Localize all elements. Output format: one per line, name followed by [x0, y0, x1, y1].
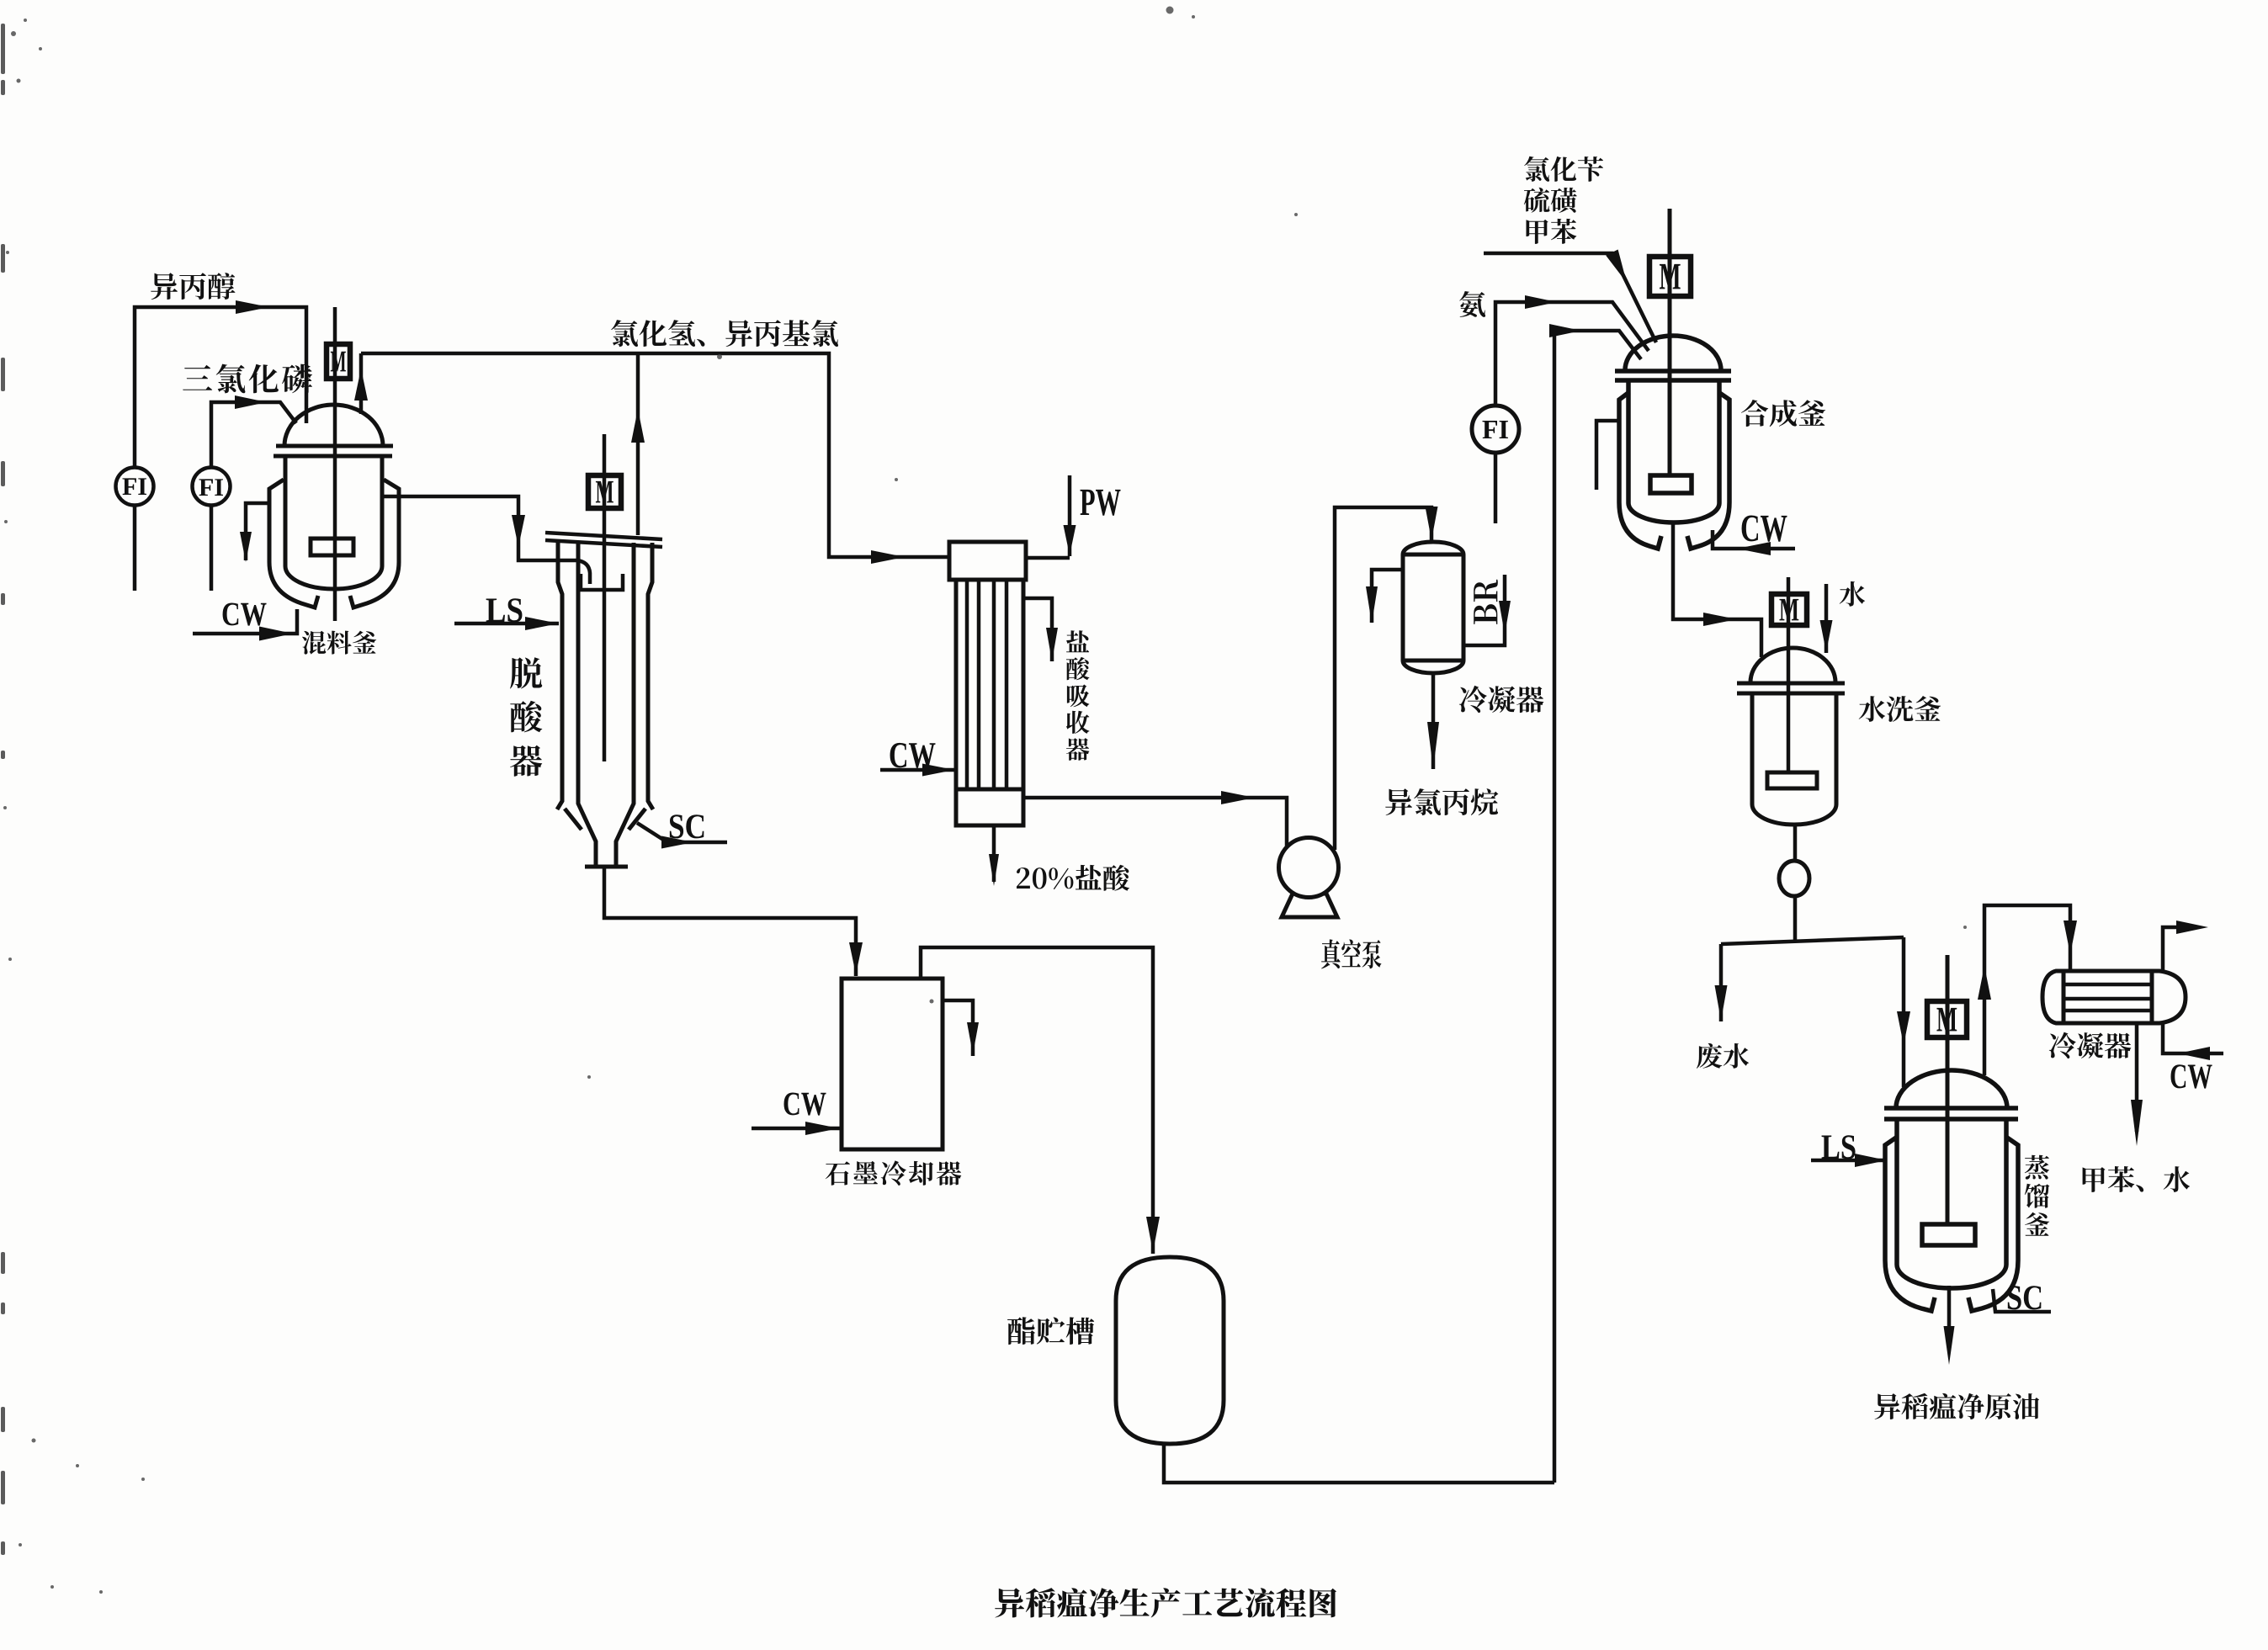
wire: ester recycle riser from storage tank to synthesis kettle — [1554, 331, 1641, 1483]
synthesis kettle paddle — [1650, 475, 1692, 493]
instrument FI1 (flow indicator) — [116, 468, 154, 506]
agitator shaft of mixing kettle — [333, 307, 337, 621]
deacidifier bottom flange — [585, 865, 628, 869]
wire: outlet below valve — [1793, 896, 1798, 941]
wire: mixing kettle outlet to deacidifier — [382, 496, 577, 560]
agitator shaft of synthesis kettle — [1668, 209, 1672, 475]
label 异氯丙烷 (isopropyl chloride product) — [1385, 788, 1498, 815]
synthesis kettle jacket left — [1619, 392, 1661, 549]
wire: phosphorus trichloride feed line with FI2 — [211, 402, 296, 468]
label 废水 (waste water) — [1697, 1043, 1749, 1069]
label CW (mixing kettle inlet) — [223, 603, 267, 626]
label SC — [670, 814, 704, 838]
wire: absorber side outlet to vacuum pump — [1023, 798, 1287, 852]
wash kettle body — [1752, 693, 1836, 825]
label 氨 (ammonia) — [1459, 291, 1485, 317]
synthesis kettle body — [1628, 380, 1719, 523]
deacidifier collar and column outer shell — [557, 543, 562, 809]
wire: ester tank bottom outlet to recycle riser — [1164, 1444, 1554, 1483]
wire: organic branch to distillation kettle — [1902, 937, 1906, 1087]
hydrochloric acid absorber 盐酸吸收器 top header — [949, 542, 1026, 580]
synthesis kettle 合成釜 dome — [1625, 336, 1721, 370]
wire: distillation bottoms product — [1947, 1286, 1952, 1346]
wire: overhead vapor header to absorber — [361, 353, 949, 557]
label 盐酸吸收器 (HCl absorber) vertical — [1066, 630, 1090, 761]
wire: vacuum pump discharge to condenser — [1335, 507, 1431, 850]
deacidifier 脱酸器 top flange — [545, 533, 662, 539]
wire: isopropanol feed line with FI1 — [135, 307, 306, 468]
label PW — [1081, 490, 1121, 516]
right condenser tubes — [2064, 983, 2152, 987]
wire: LS steam arrow into deacidifier — [454, 622, 559, 626]
label CW (graphite cooler) — [784, 1093, 826, 1116]
motor M of mixing kettle — [327, 344, 350, 379]
wire: FI2 tail — [210, 506, 214, 592]
agitator shaft of distillation kettle — [1946, 955, 1950, 1224]
wire: distillation vapor line to condenser — [1984, 905, 2070, 1075]
wire: graphite cooler right vent — [943, 1000, 973, 1056]
mixing kettle jacket right — [350, 480, 399, 607]
synthesis kettle flange — [1615, 369, 1731, 374]
instrument FI2 (flow indicator) — [193, 468, 231, 506]
motor M of deacidifier — [588, 475, 621, 508]
valve on wash kettle outlet — [1779, 861, 1809, 896]
label 氯化苄 硫磺 甲苯 (benzyl chloride, sulfur, toluene) — [1524, 157, 1603, 182]
label 冷凝器 (condenser) — [1459, 686, 1543, 713]
deacidifier feed distributor cup — [581, 574, 623, 590]
label CW (absorber) — [890, 743, 936, 768]
label 蒸馏釜 (distillation kettle) vertical — [2025, 1155, 2050, 1236]
distillation kettle jacket right — [1968, 1138, 2018, 1311]
wire: separator manifold line — [1721, 937, 1904, 944]
motor M of distillation kettle — [1927, 1001, 1967, 1037]
mixing kettle flange — [276, 444, 393, 448]
mixing kettle 混料釜 vessel dome — [284, 405, 383, 446]
label 水洗釜 (wash kettle) — [1859, 696, 1941, 722]
wire: CW inlet to absorber — [880, 768, 954, 772]
label 氯化氢、异丙基氯 (HCl + isopropyl chloride) — [611, 320, 838, 347]
wire: absorber bottom outlet 20% HCl — [992, 825, 996, 882]
label CW (synthesis kettle) — [1742, 516, 1787, 542]
label 异丙醇 (isopropanol feed) — [151, 273, 235, 300]
wire: LS steam arrow into distillation jacket — [1811, 1159, 1887, 1163]
wire: graphite cooler overhead to ester tank — [921, 947, 1153, 1254]
wire: FI3 tail — [1494, 453, 1498, 523]
wire: vapor riser from mixing kettle — [359, 353, 364, 414]
wire: condenser left coolant outlet — [1372, 570, 1403, 623]
distillation kettle 蒸馏釜 dome — [1896, 1070, 2007, 1108]
label LS (steam to distillation kettle) — [1822, 1135, 1856, 1159]
right condenser shell — [2064, 969, 2152, 974]
wire: condensate outlet toluene/water — [2135, 1023, 2139, 1132]
wire: deacidifier vapor riser — [636, 353, 640, 535]
label 石墨冷却器 (graphite cooler) — [826, 1160, 962, 1185]
label 水 (water feed) — [1840, 581, 1866, 607]
wire: water inlet to wash kettle — [1824, 584, 1829, 653]
wire: absorber top right outlet — [1023, 598, 1052, 661]
wire: wash kettle bottom outlet — [1793, 825, 1798, 861]
label 混料釜 (mixing kettle) — [302, 631, 376, 655]
graphite cooler 石墨冷却器 box — [842, 979, 943, 1149]
motor M of wash kettle — [1771, 594, 1807, 625]
label LS (steam to deacidifier) — [486, 598, 523, 622]
wire: CW inlet to mixing kettle jacket — [193, 609, 297, 634]
wash kettle 水洗釜 dome — [1750, 648, 1835, 682]
ester storage tank 酯贮槽 — [1116, 1257, 1224, 1444]
vacuum pump 真空泵 base — [1282, 894, 1337, 917]
wash kettle flange — [1737, 682, 1845, 686]
distillation kettle flange — [1884, 1106, 2018, 1111]
right condenser right cap — [2152, 971, 2186, 1023]
absorber tubes — [965, 580, 969, 789]
condenser 冷凝器 (horizontal) left cap — [2042, 971, 2064, 1023]
synthesis kettle left overflow pipe — [1596, 421, 1619, 490]
wire: waste water branch — [1719, 944, 1724, 1021]
label 甲苯、水 (toluene, water) — [2083, 1166, 2191, 1192]
wire: synthesis kettle bottoms to wash kettle — [1673, 522, 1761, 657]
wire: benzyl chloride/sulfur/toluene feed line — [1484, 253, 1656, 342]
agitator shaft of wash kettle — [1787, 577, 1791, 772]
distillation kettle body — [1897, 1119, 2006, 1288]
synthesis kettle jacket right — [1687, 392, 1729, 549]
distillation kettle paddle — [1922, 1224, 1975, 1245]
wire: SC drain from distillation jacket — [1993, 1289, 2051, 1312]
mixing kettle agitator paddle — [311, 539, 353, 555]
label 真空泵 (vacuum pump) — [1321, 939, 1381, 968]
motor M of synthesis kettle — [1649, 257, 1691, 296]
wire: FI1 tail — [133, 506, 137, 592]
wire: CW outlet left of mixing kettle — [246, 503, 269, 560]
label SC (distillation) — [2008, 1286, 2042, 1309]
wire: CW outlet from right condenser — [2163, 927, 2195, 971]
wire: condenser bottom outlet isopropyl chloride — [1431, 673, 1436, 769]
absorber bottom header — [956, 789, 1023, 825]
absorber shell — [956, 580, 1023, 789]
mixing kettle jacket left — [269, 480, 318, 607]
distillation kettle jacket left — [1885, 1138, 1935, 1311]
wire: PW process-water line — [1068, 475, 1072, 556]
deacidifier outer cone segments — [565, 809, 582, 830]
label 酯贮槽 (ester storage tank) — [1007, 1317, 1094, 1345]
label 20%盐酸 — [1017, 865, 1129, 891]
mixing kettle body — [285, 456, 382, 589]
wire: ammonia feed line with FI3 — [1495, 302, 1649, 406]
wire: CW inlet to synthesis kettle jacket — [1713, 530, 1795, 549]
vacuum pump circle — [1279, 838, 1339, 898]
condenser 冷凝器 (vertical) shell — [1403, 542, 1463, 673]
title 异稻瘟净生产工艺流程图 — [995, 1588, 1336, 1617]
deacidifier inner walls and bottom cone — [578, 543, 596, 867]
label BR (brine) rotated — [1474, 580, 1498, 624]
wire: deacidifier bottoms to graphite cooler — [604, 867, 856, 976]
label CW (right condenser) — [2170, 1064, 2212, 1088]
label 三氯化磷 (phosphorus trichloride feed) — [183, 364, 312, 394]
label 冷凝器 (right condenser) — [2049, 1032, 2131, 1058]
label 异稻瘟净原油 (crude isoprothiolane product) — [1874, 1393, 2039, 1419]
wire: CW inlet to right condenser — [2163, 1023, 2223, 1053]
wash kettle paddle — [1767, 772, 1817, 788]
wire: CW inlet to graphite cooler — [752, 1127, 840, 1131]
wire: BR brine inlet to condenser — [1465, 575, 1505, 645]
instrument FI3 (flow indicator) — [1472, 406, 1519, 453]
agitator shaft of deacidifier — [603, 434, 607, 761]
label 脱酸器 (deacidifier) vertical — [510, 657, 542, 777]
wire: SC drain from deacidifier cone — [637, 823, 727, 842]
wire: PW connection to absorber header — [1026, 556, 1070, 560]
label 合成釜 (synthesis kettle) — [1741, 400, 1825, 427]
